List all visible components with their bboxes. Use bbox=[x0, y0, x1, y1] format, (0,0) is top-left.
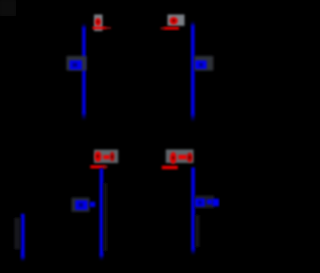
double bond O4 dash bbox=[178, 155, 186, 159]
atom O4 glyph bbox=[170, 152, 177, 164]
bond C-O4 red half below bbox=[162, 166, 178, 169]
atom N1 glyph bbox=[70, 60, 83, 69]
corner artifact patch top-left bbox=[0, 0, 16, 16]
atom O1 label background patch bbox=[94, 15, 103, 32]
atom O3b glyph bbox=[110, 152, 115, 162]
bond N4 vertical blue (right bottom) bbox=[191, 167, 195, 249]
ester O3 label background patch bbox=[94, 150, 118, 164]
atom N4 label background patch bbox=[195, 196, 214, 209]
bond N2 vertical blue (right top ring) bbox=[191, 25, 195, 115]
bond N1 vertical blue top fade cap bbox=[82, 23, 86, 29]
atom O1 glyph bbox=[95, 18, 101, 26]
bond N2 vertical blue bottom fade cap bbox=[191, 114, 195, 122]
bond N3-C blue dash bbox=[90, 202, 96, 207]
bond C=O1 dark tail bbox=[105, 27, 111, 29]
bond C-O3 red half below bbox=[90, 165, 105, 168]
bond N4 methyl blue tail bbox=[212, 199, 219, 207]
atom O2 glyph bbox=[170, 17, 178, 25]
bond N4 vertical blue bottom fade cap bbox=[191, 249, 195, 255]
atom O3 glyph bbox=[95, 151, 102, 162]
bond C=O2 dark tail bbox=[161, 27, 165, 29]
bond N5 vertical blue bottom fade cap bbox=[21, 257, 25, 262]
bond C=O2 red half bbox=[164, 27, 180, 30]
faint label smudge left of N5 bond bbox=[14, 218, 20, 250]
atom N3 glyph bbox=[75, 200, 87, 210]
faint parallel bond trace right of N4 bond bbox=[195, 215, 199, 247]
bond N5 vertical blue (bottom far left) bbox=[21, 214, 25, 257]
bond C-O3 dark tail bbox=[103, 166, 108, 169]
bond N2 vertical blue top fade cap bbox=[191, 21, 195, 26]
bond C=O1 red half bbox=[93, 27, 107, 30]
bond N3 vertical blue bottom fade cap bbox=[100, 255, 104, 261]
atom N3 label background patch bbox=[72, 198, 90, 212]
bond N4-C blue dash bbox=[207, 199, 213, 204]
atom N1 label background patch bbox=[67, 56, 87, 71]
ester O4 label background patch bbox=[166, 149, 194, 163]
double bond O3 dash bbox=[103, 155, 110, 159]
bond N3 vertical blue (center left) bbox=[100, 168, 104, 255]
bond N1 vertical blue (left top ring) bbox=[82, 28, 85, 114]
atom O2 label background patch bbox=[168, 15, 185, 26]
atom N2 glyph bbox=[195, 60, 207, 69]
bond N1 vertical blue bottom fade cap bbox=[82, 113, 86, 121]
atom N2 label background patch bbox=[194, 56, 213, 71]
atom O4b glyph bbox=[187, 153, 193, 163]
faint parallel bond trace right of N3 bond bbox=[104, 183, 107, 251]
atom N4 glyph bbox=[195, 198, 205, 206]
